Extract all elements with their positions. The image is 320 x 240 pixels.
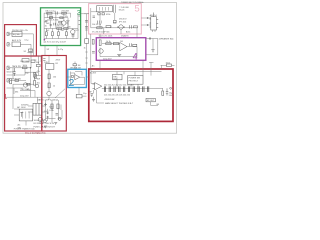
wire tape row bbox=[10, 68, 31, 97]
resistor R20 bbox=[97, 27, 102, 29]
ground G5 bbox=[92, 100, 95, 102]
resistor R14 bbox=[57, 104, 59, 109]
wire L2 mesh rows bbox=[13, 72, 38, 97]
svg-text:4.7k 1k 220 47μ 0.0047: 4.7k 1k 220 47μ 0.0047 bbox=[45, 41, 67, 43]
svg-text:MAIN SELECT PHONES Ω B-T: MAIN SELECT PHONES Ω B-T bbox=[105, 102, 134, 105]
svg-text:68k: 68k bbox=[15, 91, 18, 93]
svg-text:SG-05: SG-05 bbox=[119, 10, 126, 12]
resistor R11 bbox=[48, 83, 50, 88]
svg-text:220μ 35V: 220μ 35V bbox=[103, 59, 112, 61]
svg-text:10μ: 10μ bbox=[83, 93, 86, 95]
svg-text:5: 5 bbox=[134, 4, 139, 15]
wire mid column riser bbox=[86, 14, 88, 70]
svg-text:0.5A: 0.5A bbox=[49, 109, 54, 112]
section box 1 lower-left bbox=[5, 56, 42, 131]
svg-text:3: 3 bbox=[77, 8, 81, 17]
svg-text:1k 1k: 1k 1k bbox=[106, 41, 111, 43]
wire resistor feed above output box bbox=[161, 65, 175, 69]
wire green inner verticals bbox=[51, 18, 69, 29]
tiny text annotations bbox=[7, 2, 174, 131]
small box mixer bbox=[37, 64, 41, 66]
output box interior bbox=[91, 64, 172, 102]
resistor R10 bbox=[48, 74, 50, 79]
stub bbox=[84, 13, 89, 15]
resistor R19 on monitor row bbox=[15, 80, 19, 82]
svg-text:2SC372: 2SC372 bbox=[119, 19, 127, 21]
wire psu inner bbox=[46, 105, 63, 122]
tick bbox=[85, 29, 87, 31]
cap C23 bbox=[56, 114, 59, 116]
resistor R5 bbox=[46, 32, 48, 36]
osc coil bbox=[98, 21, 102, 24]
mid column components bbox=[84, 14, 89, 44]
resistor R15 vertical bbox=[35, 74, 37, 79]
output terminal circle bbox=[170, 87, 172, 89]
power transformer T1 bbox=[33, 103, 42, 115]
cap C24 circle bbox=[58, 117, 61, 120]
svg-text:1: 1 bbox=[4, 93, 8, 100]
svg-text:0.02 4.7k 100k: 0.02 4.7k 100k bbox=[99, 35, 114, 37]
resistor R9b bbox=[60, 17, 63, 19]
IF can A bbox=[98, 13, 100, 15]
section box 3 (green, tone amp) bbox=[41, 8, 81, 46]
ground G3 bbox=[117, 54, 121, 56]
svg-text:285V: 285V bbox=[56, 60, 61, 62]
transistor Q5 bbox=[47, 91, 51, 95]
tuner module box bbox=[97, 6, 113, 12]
wire annotation arrow bbox=[55, 89, 65, 98]
resistor R6 bbox=[52, 32, 54, 36]
svg-text:1k: 1k bbox=[53, 85, 55, 87]
resistor R19b bbox=[27, 83, 31, 85]
junction ticks bbox=[150, 37, 151, 39]
capacitor C3 bbox=[45, 20, 47, 21]
svg-text:B1 285V B2 250V 6.3V: B1 285V B2 250V 6.3V bbox=[34, 123, 55, 125]
svg-text:REC 30k: REC 30k bbox=[21, 61, 29, 63]
resistor R16 on tape row bbox=[23, 67, 28, 69]
blue box interior bbox=[71, 64, 82, 98]
green box interior components bbox=[45, 12, 80, 37]
capacitor C10 bbox=[93, 16, 96, 18]
svg-text:FIG.2 SCHEMATIC: FIG.2 SCHEMATIC bbox=[25, 132, 46, 135]
wire green row2 bbox=[45, 17, 69, 19]
wire pink q10 drop bbox=[100, 12, 121, 34]
components left of magenta bbox=[92, 40, 95, 54]
resistor R7 bbox=[58, 32, 60, 36]
IF can B bbox=[102, 13, 104, 15]
resistor R61 above box bbox=[167, 64, 172, 67]
psu diode bridge D4 bbox=[47, 116, 50, 118]
svg-text:10k 3P 50: 10k 3P 50 bbox=[92, 24, 102, 26]
resistor R30 vertical bbox=[99, 40, 101, 46]
wire psu top rail bbox=[6, 96, 66, 98]
resistor R17 vertical bbox=[34, 73, 36, 78]
svg-text:AN·214: AN·214 bbox=[150, 14, 158, 17]
relay box A bbox=[113, 74, 122, 80]
wire output right drop bbox=[162, 88, 164, 91]
wire output top rail bbox=[91, 71, 162, 73]
resistor R32 bbox=[113, 43, 118, 45]
input stubs bbox=[93, 84, 95, 89]
wire pink drops bbox=[104, 28, 137, 34]
svg-text:2k2 2k2 2k2 2k2 2k2 2k2 2k2 2k: 2k2 2k2 2k2 2k2 2k2 2k2 2k2 2k2 bbox=[104, 85, 135, 87]
svg-text:500mV: 500mV bbox=[7, 72, 14, 74]
svg-text:6.3V: 6.3V bbox=[49, 107, 54, 109]
wire below blue bbox=[79, 88, 87, 97]
wire blue input stub bbox=[66, 62, 75, 78]
capacitor C31 bbox=[92, 52, 95, 54]
wire green to psu drops bbox=[45, 46, 57, 56]
cartridge EQ box bbox=[12, 32, 22, 37]
resistor R4 bbox=[64, 28, 68, 30]
resistor R18 vertical bbox=[34, 81, 36, 86]
filter cap C20 bbox=[38, 117, 42, 121]
wire green hang drops bbox=[47, 28, 74, 38]
svg-text:EQ 50k: EQ 50k bbox=[13, 34, 20, 36]
wire transformer leads bbox=[28, 106, 46, 112]
wire magenta out bbox=[127, 47, 137, 57]
input select box bbox=[12, 42, 21, 47]
svg-text:47k: 47k bbox=[37, 71, 40, 73]
svg-text:(SPEAKER 8Ω): (SPEAKER 8Ω) bbox=[159, 38, 174, 41]
junction dot bbox=[30, 67, 31, 68]
capacitor C11 bbox=[130, 25, 132, 28]
wire green left rail bbox=[43, 13, 45, 43]
wire blue inner bbox=[71, 72, 85, 85]
capacitor C15 bbox=[13, 68, 16, 76]
svg-text:1k: 1k bbox=[84, 47, 86, 49]
capacitor C4 bbox=[54, 23, 55, 26]
IF can C bbox=[114, 20, 117, 23]
svg-text:2SA493: 2SA493 bbox=[121, 34, 129, 37]
transistor Q7 bbox=[35, 84, 39, 88]
svg-text:12k: 12k bbox=[65, 16, 68, 18]
transistor Q6 bbox=[23, 83, 27, 87]
resistor above blue box bbox=[73, 64, 77, 66]
svg-text:10k: 10k bbox=[113, 23, 116, 25]
psu diode bridge D3 bbox=[47, 112, 50, 114]
transistor Q20 bbox=[99, 49, 103, 53]
svg-text:AUX 0.2V: AUX 0.2V bbox=[12, 39, 22, 42]
svg-text:B+35V: B+35V bbox=[90, 73, 97, 75]
wire green mid row bbox=[44, 27, 78, 29]
wire magenta down to output bbox=[149, 62, 154, 75]
resistor R33 bbox=[133, 44, 137, 46]
svg-text:100k: 100k bbox=[23, 65, 27, 67]
wire blue to output box bbox=[86, 76, 88, 78]
rectifier block bbox=[19, 109, 32, 121]
resistor R22 bbox=[134, 26, 138, 28]
transformer tap mark bbox=[20, 112, 23, 117]
svg-text:50/60Hz: 50/60Hz bbox=[21, 104, 28, 106]
svg-text:TAPE PB: TAPE PB bbox=[12, 65, 21, 68]
wire into relay boxes bbox=[117, 69, 143, 88]
svg-text:455k: 455k bbox=[106, 14, 110, 16]
wire blue feedback bbox=[75, 72, 82, 76]
M top tick marks bbox=[43, 59, 45, 61]
svg-text:FUSE 1.5A AC OUTLET: FUSE 1.5A AC OUTLET bbox=[34, 126, 56, 129]
resistor R3 bbox=[57, 28, 62, 30]
jack J3 tape bbox=[7, 66, 10, 69]
cap C40 bbox=[85, 21, 88, 23]
filter cap C22 bbox=[43, 120, 46, 123]
wire green verticals bbox=[48, 13, 79, 38]
resistor R9c bbox=[59, 21, 62, 23]
svg-text:0.47μ: 0.47μ bbox=[58, 49, 63, 51]
resistor R2 bbox=[62, 12, 67, 14]
wire mid row L2 bbox=[7, 68, 26, 75]
svg-text:SW: SW bbox=[18, 127, 21, 129]
balance pot box bbox=[31, 60, 35, 63]
jack J1 phono bbox=[7, 32, 10, 35]
wire ground stub right bbox=[152, 39, 154, 50]
svg-text:100k: 100k bbox=[49, 16, 53, 18]
svg-text:22k 22k 22k 22k 22k 22k: 22k 22k 22k 22k 22k 22k 22k bbox=[104, 95, 130, 97]
svg-text:TUNER SECT 76-90MHz: TUNER SECT 76-90MHz bbox=[121, 2, 144, 4]
svg-text:470Ω 10W: 470Ω 10W bbox=[105, 99, 115, 101]
svg-text:1k: 1k bbox=[45, 25, 47, 27]
coupling box below blue bbox=[76, 94, 82, 98]
capacitor C1 bbox=[56, 12, 58, 15]
wire pink mid row bbox=[91, 27, 137, 29]
wire output box input rail bbox=[91, 69, 95, 84]
wire L1 top row bbox=[10, 34, 33, 56]
ground G1 bbox=[44, 126, 47, 128]
svg-text:0.1μ: 0.1μ bbox=[25, 39, 29, 41]
jack J2 aux bbox=[7, 43, 10, 46]
svg-text:47μ: 47μ bbox=[27, 89, 30, 91]
wire green right link bbox=[81, 13, 84, 15]
op-amp U1 bbox=[75, 75, 80, 80]
svg-text:AGC: AGC bbox=[126, 30, 131, 33]
wire green top row bbox=[44, 12, 70, 14]
ground G2 bbox=[54, 123, 57, 125]
svg-text:1M: 1M bbox=[78, 65, 81, 67]
svg-text:SP OUT: SP OUT bbox=[147, 100, 155, 102]
svg-text:＝ 140 460: ＝ 140 460 bbox=[119, 6, 130, 9]
cap C5 bbox=[50, 25, 52, 26]
section box 6 big red (output stage) bbox=[89, 69, 173, 121]
svg-text:PROTECT: PROTECT bbox=[129, 81, 139, 83]
svg-text:2SC458: 2SC458 bbox=[61, 11, 69, 13]
svg-text:MON SW: MON SW bbox=[12, 78, 21, 80]
resistor R31 bbox=[106, 43, 111, 45]
wire pink left rail bbox=[91, 8, 97, 28]
svg-text:100k: 100k bbox=[166, 63, 170, 65]
section box 5 (pink, tuner section) bbox=[89, 4, 142, 34]
svg-text:SW: SW bbox=[37, 78, 40, 80]
wire green bottom rail bbox=[44, 38, 78, 40]
resistor R13 bbox=[51, 104, 53, 109]
wire monitor row bbox=[10, 79, 26, 81]
wire L1 second row bbox=[21, 44, 32, 68]
wire tuner to IC links bbox=[141, 18, 151, 25]
relay box B bbox=[128, 76, 143, 85]
driver box M bbox=[46, 64, 54, 70]
wire under opamp bbox=[94, 90, 105, 103]
wire psu risers bbox=[38, 56, 59, 123]
wire left riser bbox=[12, 68, 14, 109]
cap C41 bbox=[85, 27, 88, 29]
svg-text:0.0047: 0.0047 bbox=[57, 24, 64, 26]
capacitor C30 bbox=[130, 43, 132, 46]
wire pink to magenta crossings bbox=[91, 34, 137, 69]
diode D1 bbox=[44, 103, 47, 106]
resistor bank RB1 bbox=[104, 86, 105, 92]
svg-text:POWER SW: POWER SW bbox=[129, 78, 140, 80]
resistor R50 bbox=[71, 76, 73, 78]
sheet border frame bbox=[3, 3, 177, 134]
resistor R40 bbox=[85, 39, 89, 44]
wire output row main bbox=[102, 87, 163, 89]
diode D2 bbox=[91, 94, 94, 97]
svg-text:PHONO MG: PHONO MG bbox=[12, 30, 24, 32]
section box 4 (magenta, driver) bbox=[96, 38, 146, 61]
magenta box interior components bbox=[99, 40, 137, 57]
svg-text:DRV: DRV bbox=[44, 62, 49, 64]
svg-text:1000μ 50V ×2: 1000μ 50V ×2 bbox=[34, 119, 47, 122]
registration dot bbox=[44, 39, 46, 41]
switch S1 marks bbox=[29, 49, 33, 52]
capacitor C2 bbox=[72, 35, 75, 36]
svg-text:2SK30A GR: 2SK30A GR bbox=[70, 67, 82, 70]
resistor R8 bbox=[66, 32, 68, 36]
svg-text:220μ 16V: 220μ 16V bbox=[20, 95, 29, 97]
wire terminal drop bbox=[151, 102, 158, 106]
resistor R60 vertical bbox=[162, 91, 164, 95]
ground and ticks right of magenta bbox=[150, 37, 155, 52]
resistor R21 bbox=[106, 26, 111, 28]
pink box interior components bbox=[93, 5, 138, 29]
svg-text:IFT 455: IFT 455 bbox=[119, 21, 127, 23]
svg-text:(TAPE LOOP Z=50kΩ): (TAPE LOOP Z=50kΩ) bbox=[37, 99, 58, 102]
svg-text:SW: SW bbox=[36, 62, 39, 64]
section box 1 upper (input stage) bbox=[5, 25, 37, 56]
wire lower L2 row bbox=[7, 87, 21, 89]
resistor R9 bbox=[49, 17, 52, 19]
transistor Q1 bbox=[62, 21, 66, 25]
resistor R34 vertical bbox=[92, 40, 94, 45]
wire speaker feed bbox=[146, 39, 158, 55]
wire magenta mid row bbox=[102, 43, 120, 45]
wire mid column ticks bbox=[85, 52, 87, 63]
svg-text:2: 2 bbox=[69, 77, 75, 89]
svg-text:VC 20k B 100P 5k6: VC 20k B 100P 5k6 bbox=[92, 32, 110, 34]
jack J4 monitor bbox=[7, 79, 10, 82]
IC U3 meter driver bbox=[147, 13, 158, 31]
ground G4 bbox=[151, 50, 154, 52]
svg-text:47k: 47k bbox=[25, 30, 28, 32]
section box 2 (blue, preamp) bbox=[68, 69, 87, 87]
svg-text:10μ: 10μ bbox=[25, 72, 28, 74]
svg-text:33k C 0.1μ: 33k C 0.1μ bbox=[45, 11, 56, 13]
wire psu bottom exits bbox=[14, 109, 40, 126]
svg-text:10k 4.7k 56k: 10k 4.7k 56k bbox=[47, 19, 58, 21]
filter box L2 bbox=[22, 59, 29, 62]
wire magenta bottom rail bbox=[100, 48, 137, 57]
output resistor ladder bbox=[104, 86, 149, 92]
wire L2 extra risers bbox=[14, 56, 41, 94]
op-amp U4 bbox=[95, 83, 102, 90]
transistor Q10 bbox=[119, 25, 123, 29]
resistor R1 bbox=[47, 12, 52, 14]
pin stubs right edge bbox=[79, 16, 81, 25]
wire IC bottom stubs bbox=[153, 30, 156, 32]
op-amp U2 bbox=[120, 43, 127, 51]
wire magenta underside drops bbox=[100, 60, 143, 69]
section box 1 lower-mid (power supply) bbox=[42, 56, 67, 132]
resistor R12 vertical bbox=[10, 79, 12, 84]
terminal box bbox=[146, 98, 155, 101]
cap C60 bbox=[166, 88, 169, 95]
trimmer caps bbox=[113, 5, 115, 13]
transistor Q2 bbox=[71, 30, 75, 34]
